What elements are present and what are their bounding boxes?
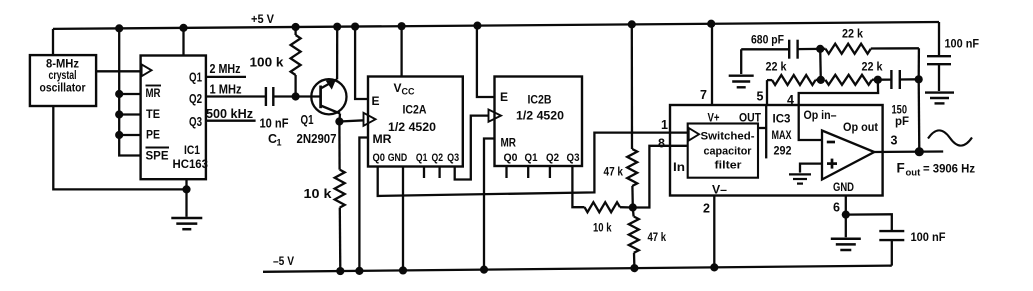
- svg-text:out: out: [906, 168, 922, 179]
- svg-text:10 k: 10 k: [593, 221, 612, 235]
- counter IC1 HC163 box: [141, 56, 206, 180]
- svg-text:Q1: Q1: [525, 152, 538, 164]
- wire IC2B E to +5V: [477, 26, 495, 97]
- svg-text:Q2: Q2: [432, 152, 444, 164]
- wire IC1 GND pin: [185, 179, 187, 189]
- node junction divider: [629, 203, 637, 211]
- ground IC1: [171, 218, 202, 229]
- svg-text:oscillator: oscillator: [40, 83, 86, 95]
- filter IC3 MAX292 box: [670, 105, 883, 196]
- capacitor 680 pF: [741, 33, 820, 59]
- wire 680pF ground stem: [740, 49, 742, 74]
- node junction pin6: [842, 211, 850, 219]
- node junction rail-IC1 controls: [115, 24, 123, 32]
- resistor 10 k divider: [585, 202, 633, 234]
- wire C1 to base node: [273, 95, 295, 97]
- svg-text:Q0: Q0: [504, 152, 518, 164]
- node junction rail-IC2A E: [351, 22, 359, 30]
- IC1 MR pin label: [146, 86, 162, 101]
- svg-text:Q3: Q3: [567, 152, 580, 164]
- IC1 clock triangle: [142, 64, 152, 76]
- resistor 47 k upper: [604, 24, 638, 207]
- IC3 GND label: [833, 180, 854, 194]
- wire op-amp noninverting to ground: [800, 164, 822, 173]
- wire IC2A GND pin to -5V: [402, 167, 404, 271]
- ground op-amp noninverting: [789, 174, 811, 183]
- svg-text:Op out: Op out: [843, 120, 878, 134]
- svg-text:F: F: [897, 161, 905, 176]
- pin number 7: [700, 88, 707, 102]
- IC1 PE pin label: [146, 128, 160, 142]
- svg-text:Op in–: Op in–: [804, 108, 837, 122]
- svg-text:HC163: HC163: [173, 157, 209, 171]
- wire pin4 dogleg to N3: [799, 80, 878, 105]
- svg-text:100 nF: 100 nF: [911, 230, 946, 244]
- IC2B clock triangle: [489, 110, 502, 122]
- svg-text:In: In: [673, 160, 685, 174]
- svg-text:4: 4: [787, 93, 794, 107]
- IC1 Q3 pin label: [189, 115, 202, 129]
- svg-text:IC2A: IC2A: [403, 103, 427, 117]
- svg-text:OUT: OUT: [739, 111, 762, 125]
- node junction MR tie: [115, 90, 123, 98]
- IC2A bottom row labels: [373, 152, 460, 164]
- wire output node down to op out: [918, 79, 921, 151]
- svg-text:MAX: MAX: [772, 128, 792, 142]
- svg-text:8: 8: [658, 137, 665, 151]
- node junction TE tie: [115, 110, 123, 118]
- node junction rail-IC2A VCC: [398, 22, 406, 30]
- node junction rail-IC2A GND: [399, 266, 407, 274]
- wire IC2B Q3 to 10k: [572, 166, 584, 207]
- svg-text:22 k: 22 k: [842, 27, 863, 41]
- svg-text:IC2B: IC2B: [528, 93, 552, 107]
- svg-text:10 k: 10 k: [304, 186, 333, 201]
- wire IC1 TE tie: [119, 113, 140, 115]
- node junction rail-divider 47k: [628, 20, 636, 28]
- wire Q3 output 500 kHz: [206, 106, 256, 121]
- wire 100nF to ground: [938, 64, 940, 91]
- wire 100nF to -5V rail: [891, 240, 893, 266]
- ground 680pF: [729, 76, 754, 88]
- svg-text:V+: V+: [708, 111, 720, 125]
- counter IC2A box: [368, 77, 463, 167]
- svg-text:GND: GND: [833, 180, 854, 194]
- svg-text:CC: CC: [402, 87, 415, 97]
- wire IC2A E to +5V: [355, 27, 368, 99]
- counter IC2B box: [495, 77, 583, 167]
- node junction base: [292, 92, 300, 100]
- sine wave symbol: [928, 130, 972, 145]
- wire IC2A Q2 stub: [438, 167, 440, 179]
- svg-text:TE: TE: [146, 107, 160, 121]
- pin number 2: [703, 202, 710, 216]
- wire IC2B MR to -5V: [484, 139, 495, 270]
- svg-text:680 pF: 680 pF: [751, 33, 784, 47]
- pin number 5: [757, 90, 764, 104]
- svg-text:10 nF: 10 nF: [260, 117, 289, 131]
- svg-text:MR: MR: [373, 132, 392, 146]
- pin number 8: [658, 137, 665, 151]
- node junction collector: [335, 117, 343, 125]
- wire IC2B Q2 stub: [549, 166, 551, 178]
- wire divider node to IC3 In pin8: [633, 146, 688, 208]
- svg-text:6: 6: [833, 201, 840, 215]
- IC2A E label: [372, 94, 380, 108]
- IC1 TE pin label: [146, 107, 160, 121]
- svg-text:1: 1: [277, 138, 282, 148]
- wire oscillator Vcc to +5V rail: [52, 29, 54, 55]
- node junction N3 inverting: [874, 76, 882, 84]
- svg-text:Q1: Q1: [189, 71, 202, 85]
- node junction rail-IC2A MR: [355, 267, 363, 275]
- node junction N2 output top: [915, 75, 923, 83]
- node junction output: [915, 147, 924, 156]
- op-amp IC3 uncommitted: [822, 131, 874, 180]
- capacitor 100 nF bypass V-: [879, 230, 945, 244]
- svg-text:E: E: [500, 90, 508, 104]
- wire op-amp output pin3: [874, 150, 943, 153]
- svg-text:MR: MR: [146, 86, 161, 100]
- IC3 V+ label: [708, 111, 720, 125]
- wire +5V to IC1 control pins: [119, 28, 140, 155]
- wire N1 up to 680pF node: [819, 49, 822, 80]
- IC3 In label: [673, 160, 685, 174]
- svg-text:500 kHz: 500 kHz: [206, 106, 253, 121]
- wire pin7 V+ to rail: [711, 24, 713, 105]
- IC2A MR label: [373, 132, 392, 146]
- wire pin2 V- to -5V: [713, 196, 715, 268]
- wire IC1 ground stem: [185, 189, 187, 216]
- node junction rail-R 100k: [292, 23, 300, 31]
- pin number 1: [661, 118, 668, 132]
- resistor 47 k lower: [629, 208, 666, 269]
- oscillator 8-MHz crystal box: [30, 55, 96, 106]
- resistor 10 k: [304, 122, 345, 272]
- svg-text:filter: filter: [715, 160, 743, 172]
- wire pin6 to 100nF: [846, 214, 892, 231]
- resistor 100 k: [250, 27, 301, 96]
- svg-text:IC3: IC3: [773, 112, 791, 126]
- pin number 4: [787, 93, 794, 107]
- label Fout frequency: [897, 161, 976, 179]
- svg-text:1/2 4520: 1/2 4520: [388, 120, 436, 134]
- resistor 22 k input: [766, 60, 821, 86]
- svg-text:5: 5: [757, 90, 764, 104]
- svg-text:Q1: Q1: [301, 113, 314, 127]
- svg-text:+5 V: +5 V: [251, 12, 274, 26]
- svg-text:Switched-: Switched-: [701, 131, 755, 143]
- svg-text:2 MHz: 2 MHz: [210, 61, 241, 76]
- wire pin4 internal to op-amp inverting: [799, 105, 822, 140]
- filter clock buffer triangle: [689, 128, 699, 141]
- node junction IC1 ground: [182, 185, 190, 193]
- svg-text:2N2907: 2N2907: [297, 132, 337, 146]
- svg-text:PE: PE: [146, 128, 160, 142]
- svg-text:IC1: IC1: [184, 143, 200, 157]
- IC2A name: [388, 103, 436, 135]
- wire pin6 GND stub: [845, 196, 847, 215]
- node junction rail-divider 47k: [630, 264, 638, 272]
- svg-text:Q3: Q3: [189, 115, 202, 129]
- svg-text:1/2 4520: 1/2 4520: [516, 109, 564, 123]
- IC2A clock triangle: [364, 113, 376, 126]
- IC2A VCC label: [394, 81, 415, 97]
- svg-text:= 3906 Hz: = 3906 Hz: [923, 162, 975, 176]
- svg-text:47 k: 47 k: [648, 230, 667, 244]
- wire IC2A Q1 stub: [423, 167, 425, 179]
- node junction rail-IC3 pin7: [707, 20, 715, 28]
- IC3 Op in- label: [804, 108, 837, 122]
- ground 100nF top: [925, 93, 954, 104]
- node junction rail-IC1 VCC: [179, 24, 187, 32]
- svg-text:1 MHz: 1 MHz: [210, 82, 242, 97]
- IC2B MR label: [501, 136, 517, 150]
- node junction rail-IC3 pin2: [710, 263, 718, 271]
- svg-text:SPE: SPE: [146, 149, 169, 163]
- wire pin5 internal to filter block: [758, 105, 766, 158]
- capacitor 150 pF: [878, 70, 919, 128]
- wire IC2B Q1 stub: [527, 166, 529, 178]
- IC2B bottom row labels: [504, 152, 580, 164]
- svg-text:Q1: Q1: [416, 152, 428, 164]
- wire pin5 OUT up: [766, 80, 768, 105]
- svg-text:7: 7: [700, 88, 707, 102]
- svg-text:47 k: 47 k: [604, 165, 624, 179]
- wire oscillator ground pin: [53, 106, 186, 189]
- filter inner switched-capacitor box: [688, 124, 758, 178]
- pin number 6: [833, 201, 840, 215]
- wire IC1 MR tie: [119, 93, 140, 95]
- node junction N1 row: [817, 76, 825, 84]
- wire IC2A Q0 pin to clock line: [378, 133, 688, 196]
- capacitor C1 10 nF: [260, 87, 289, 148]
- IC3 name: [772, 112, 792, 158]
- node junction rail-10k: [336, 267, 344, 275]
- svg-text:E: E: [372, 94, 380, 108]
- wire Q2 output 1 MHz: [206, 82, 266, 97]
- node junction rail-IC2B E: [473, 21, 481, 29]
- wire Q1 output 2 MHz: [206, 61, 246, 77]
- svg-text:V–: V–: [712, 183, 727, 197]
- svg-text:pF: pF: [895, 114, 909, 128]
- wire IC1 PE tie: [119, 134, 140, 136]
- wire +5V rail corner down: [938, 22, 940, 56]
- svg-text:MR: MR: [501, 136, 517, 150]
- wire IC2B Q0 stub: [505, 166, 507, 178]
- IC3 V- label: [712, 183, 727, 197]
- wire +5V rail: [53, 12, 939, 29]
- wire pin6 ground stem: [845, 215, 847, 238]
- wire IC2A Q3 to IC2B clock: [455, 116, 489, 180]
- IC3 OUT label: [739, 111, 762, 125]
- IC1 Q1 pin label: [189, 71, 202, 85]
- IC2B E label: [500, 90, 508, 104]
- svg-text:Q0: Q0: [373, 152, 386, 164]
- svg-text:Q2: Q2: [189, 92, 202, 106]
- svg-text:Q3: Q3: [447, 152, 459, 164]
- capacitor 100 nF bypass V+: [927, 37, 979, 65]
- svg-text:292: 292: [774, 144, 792, 158]
- svg-text:22 k: 22 k: [766, 60, 787, 74]
- svg-text:8-MHz: 8-MHz: [46, 59, 79, 71]
- IC1 Q2 pin label: [189, 92, 202, 106]
- wire oscillator output to IC1 clock: [96, 70, 141, 72]
- wire IC1 VCC to rail: [182, 28, 184, 56]
- wire IC2A VCC to rail: [400, 26, 402, 76]
- wire feedback down to output node: [918, 48, 921, 79]
- svg-text:22 k: 22 k: [862, 60, 883, 74]
- node junction rail-IC2B MR: [480, 266, 488, 274]
- svg-text:2: 2: [703, 202, 710, 216]
- svg-text:GND: GND: [388, 152, 408, 164]
- svg-text:capacitor: capacitor: [704, 146, 753, 158]
- IC1 SPE pin label: [146, 148, 170, 163]
- pin number 3: [891, 134, 898, 148]
- IC3 Op out label: [843, 120, 878, 134]
- ground pin6: [831, 239, 861, 250]
- svg-text:100 k: 100 k: [250, 55, 285, 70]
- IC1 labels: [173, 143, 209, 171]
- svg-text:100 nF: 100 nF: [945, 37, 980, 51]
- svg-text:Q2: Q2: [546, 152, 559, 164]
- wire -5V rail: [263, 254, 892, 272]
- node junction PE tie: [115, 131, 123, 139]
- wire Q1 collector to IC2A clock: [339, 120, 364, 121]
- node junction 680pF: [816, 45, 824, 53]
- svg-text:–5 V: –5 V: [273, 254, 294, 268]
- wire IC2A MR to -5V: [359, 138, 368, 271]
- svg-text:V: V: [394, 81, 402, 95]
- transistor Q1 2N2907: [296, 27, 347, 146]
- node junction rail-Q1 emitter: [333, 23, 341, 31]
- resistor 22 k middle: [825, 60, 882, 85]
- IC2B name: [516, 93, 564, 123]
- svg-text:1: 1: [661, 118, 668, 132]
- svg-text:crystal: crystal: [49, 70, 77, 82]
- resistor 22 k feedback top: [820, 27, 919, 54]
- svg-text:3: 3: [891, 134, 898, 148]
